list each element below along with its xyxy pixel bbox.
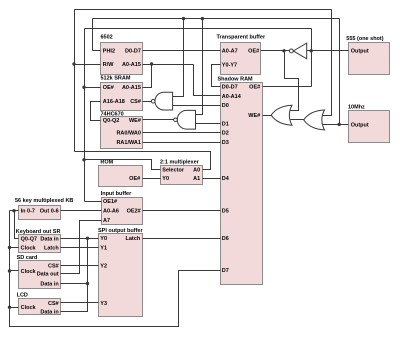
svg-text:RA0/WA0: RA0/WA0 — [116, 131, 140, 137]
svg-text:Latch: Latch — [44, 245, 59, 251]
svg-text:WE#: WE# — [129, 118, 141, 124]
svg-text:Q0-Q2: Q0-Q2 — [103, 118, 120, 124]
svg-text:Clock: Clock — [21, 245, 37, 251]
svg-text:R/W: R/W — [103, 62, 115, 68]
svg-text:10Mhz: 10Mhz — [348, 105, 365, 111]
svg-text:512k SRAM: 512k SRAM — [101, 76, 131, 82]
svg-text:A0-A15: A0-A15 — [122, 85, 141, 91]
svg-text:Y0: Y0 — [162, 176, 169, 182]
svg-text:Y2: Y2 — [100, 263, 107, 269]
svg-text:D3: D3 — [222, 140, 229, 146]
svg-text:OE2#: OE2# — [127, 209, 141, 215]
svg-text:Transparent buffer: Transparent buffer — [217, 35, 266, 41]
svg-text:D5: D5 — [222, 209, 229, 215]
svg-text:A0-A15: A0-A15 — [122, 62, 141, 68]
svg-text:Output: Output — [351, 49, 369, 55]
svg-text:D7: D7 — [222, 268, 229, 274]
svg-text:D0: D0 — [222, 103, 229, 109]
svg-text:A0-A14: A0-A14 — [222, 94, 242, 100]
svg-text:Out 0-6: Out 0-6 — [40, 209, 59, 215]
svg-text:OE#: OE# — [129, 176, 140, 182]
svg-text:D0-D7: D0-D7 — [222, 85, 238, 91]
svg-text:OE#: OE# — [248, 48, 259, 54]
svg-text:D6: D6 — [222, 236, 229, 242]
svg-text:CS#: CS# — [48, 301, 59, 307]
svg-text:Y0-Y7: Y0-Y7 — [222, 63, 237, 69]
svg-text:Keyboard out SR: Keyboard out SR — [16, 229, 61, 235]
svg-text:Q0-Q7: Q0-Q7 — [21, 237, 38, 243]
svg-text:A0-A6: A0-A6 — [103, 209, 119, 215]
svg-text:Input buffer: Input buffer — [101, 191, 132, 197]
svg-text:Y3: Y3 — [100, 301, 107, 307]
svg-text:A0-A7: A0-A7 — [222, 48, 238, 54]
svg-text:D2: D2 — [222, 131, 229, 137]
svg-text:Data in: Data in — [40, 310, 59, 316]
svg-text:SPI output buffer: SPI output buffer — [98, 228, 143, 234]
svg-text:PHI2: PHI2 — [103, 48, 115, 54]
svg-text:Latch: Latch — [126, 236, 141, 242]
svg-text:74HC670: 74HC670 — [101, 111, 124, 117]
svg-text:Output: Output — [351, 122, 369, 128]
svg-text:D1: D1 — [222, 121, 229, 127]
svg-text:CS#: CS# — [130, 99, 141, 105]
svg-text:OE#: OE# — [103, 85, 114, 91]
svg-text:WE#: WE# — [248, 113, 260, 119]
svg-text:Clock: Clock — [21, 305, 37, 311]
svg-text:Selector: Selector — [162, 168, 185, 174]
svg-text:OE1#: OE1# — [103, 199, 117, 205]
svg-text:6502: 6502 — [101, 35, 113, 41]
svg-text:Y1: Y1 — [100, 245, 107, 251]
svg-text:56 key multiplexed KB: 56 key multiplexed KB — [15, 198, 73, 204]
svg-text:A16-A18: A16-A18 — [103, 99, 125, 105]
svg-text:A0: A0 — [193, 168, 200, 174]
svg-text:In 0-7: In 0-7 — [21, 209, 35, 215]
svg-text:RA1/WA1: RA1/WA1 — [116, 140, 140, 146]
svg-text:ROM: ROM — [100, 159, 113, 165]
svg-text:OE#: OE# — [249, 85, 260, 91]
svg-text:CS#: CS# — [48, 263, 59, 269]
svg-text:D4: D4 — [222, 176, 230, 182]
svg-text:Data out: Data out — [37, 272, 59, 278]
svg-text:A1: A1 — [193, 176, 200, 182]
svg-text:A7: A7 — [103, 218, 110, 224]
svg-text:Y0: Y0 — [100, 236, 107, 242]
svg-text:2:1 multiplexer: 2:1 multiplexer — [160, 159, 200, 165]
svg-text:Shadow RAM: Shadow RAM — [218, 76, 254, 82]
svg-text:Data in: Data in — [40, 237, 59, 243]
svg-text:D0-D7: D0-D7 — [125, 48, 141, 54]
svg-text:Data in: Data in — [40, 281, 59, 287]
svg-text:LCD: LCD — [17, 293, 28, 299]
svg-text:SD card: SD card — [17, 255, 38, 261]
svg-text:Clock: Clock — [21, 269, 37, 275]
svg-text:555 (one shot): 555 (one shot) — [346, 36, 383, 42]
